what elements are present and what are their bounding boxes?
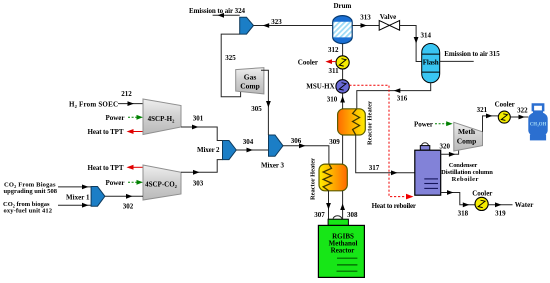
svg-text:Emission to air 324: Emission to air 324 — [189, 7, 246, 15]
cooler (water, bottom right) — [475, 197, 488, 210]
svg-text:Comp: Comp — [240, 81, 260, 90]
svg-text:305: 305 — [251, 105, 262, 113]
svg-text:306: 306 — [291, 137, 302, 145]
svg-text:oxy-fuel unit 412: oxy-fuel unit 412 — [4, 208, 53, 215]
wire: stream 304 from Mixer 2 to Mixer 3 — [236, 149, 268, 151]
wire: stream 325 from splitter to Gas Comp — [221, 34, 240, 97]
svg-text:Power: Power — [105, 114, 124, 122]
svg-text:Heat to TPT: Heat to TPT — [88, 164, 124, 172]
wire: stream 316 from Flash to top reactor heater — [357, 83, 431, 109]
heat exchanger MSU-HX — [336, 80, 349, 93]
wire: cooler to drum — [342, 44, 344, 56]
svg-text:310: 310 — [327, 96, 338, 104]
svg-text:Reactor Heater: Reactor Heater — [367, 101, 374, 145]
wire: power to 4SCP-CO2 (green dashed) — [128, 181, 143, 183]
wire: stream 323 from Drum to splitter — [254, 25, 333, 27]
wire: vertical between heaters (reactor effluent) — [342, 135, 344, 164]
mixer Mixer 3 — [261, 135, 285, 170]
svg-text:upgrading unit 508: upgrading unit 508 — [4, 188, 58, 195]
wire: MSU-HX heat to reboiler (red dashed) — [349, 85, 409, 196]
svg-text:322: 322 — [517, 107, 528, 115]
wire: column bottoms to cooler 318 — [441, 193, 475, 205]
wire: stream 306 from Mixer 3 to bottom reactor heater — [283, 146, 329, 164]
svg-text:Emission to air 315: Emission to air 315 — [444, 50, 500, 58]
svg-text:Heat to reboiler: Heat to reboiler — [372, 202, 416, 210]
wire: stream 321 from Meth Comp to cooler — [483, 116, 499, 132]
svg-text:318: 318 — [458, 210, 469, 218]
wire: emission to air 324 — [213, 14, 240, 16]
svg-text:Distillation column: Distillation column — [441, 169, 493, 176]
svg-text:316: 316 — [397, 95, 408, 103]
wire: stream 305 from Gas Comp to Mixer 3 — [261, 70, 268, 135]
cooler (product, top right) — [498, 111, 510, 123]
wire: biogas feed 1 into Mixer 1 — [58, 186, 91, 188]
svg-text:Water: Water — [515, 201, 534, 209]
vessel Flash — [422, 44, 440, 83]
wire: cooler heat out (red) — [329, 61, 336, 63]
valve — [379, 13, 399, 30]
svg-text:H2 From SOEC: H2 From SOEC — [69, 100, 118, 109]
wire: biogas feed 2 into Mixer 1 — [58, 204, 91, 206]
svg-text:Mixer 1: Mixer 1 — [66, 194, 90, 202]
svg-text:301: 301 — [193, 114, 204, 122]
wire: stream 307 from bottom heater down into reactor — [328, 191, 330, 219]
svg-text:Cooler: Cooler — [495, 101, 515, 109]
svg-text:320: 320 — [440, 142, 451, 150]
column distillation (Condenser / Distillation column / Reboiler) — [415, 143, 441, 195]
svg-text:212: 212 — [121, 90, 132, 98]
heat exchanger bottom Reactor Heater — [310, 158, 348, 200]
svg-text:307: 307 — [314, 211, 325, 219]
wire: heat to TPT from 4SCP-CO2 (red) — [130, 166, 143, 168]
svg-text:4SCP-CO2: 4SCP-CO2 — [145, 180, 178, 189]
vessel Drum — [333, 2, 353, 44]
svg-text:Heat to TPT: Heat to TPT — [88, 128, 124, 136]
svg-text:304: 304 — [243, 138, 254, 146]
svg-text:311: 311 — [329, 67, 340, 75]
wire: power to 4SCP-H2 (green dashed) — [128, 116, 143, 118]
wire: stream 313 from Drum to valve — [352, 25, 379, 27]
svg-text:Gas: Gas — [244, 73, 257, 82]
svg-text:Power: Power — [414, 120, 433, 128]
svg-text:Valve: Valve — [380, 13, 396, 21]
svg-text:Reactor: Reactor — [331, 247, 355, 255]
svg-text:302: 302 — [123, 203, 134, 211]
svg-text:323: 323 — [271, 18, 282, 26]
svg-text:Cooler: Cooler — [298, 58, 318, 66]
svg-text:Condenser: Condenser — [449, 162, 478, 169]
svg-text:Reboiler: Reboiler — [452, 176, 479, 183]
wire: emission to air 315 from Flash — [440, 60, 474, 62]
svg-text:4SCP-H2: 4SCP-H2 — [148, 115, 176, 124]
svg-text:321: 321 — [477, 106, 488, 114]
wire: stream 301 from 4SCP-H2 to Mixer 2 — [181, 127, 223, 141]
svg-text:Cooler: Cooler — [472, 189, 492, 197]
wire: power to Meth Comp (green dashed) — [435, 123, 448, 125]
svg-text:Flash: Flash — [423, 59, 439, 67]
svg-text:303: 303 — [193, 180, 204, 188]
svg-text:Reactor Heater: Reactor Heater — [310, 158, 317, 200]
mixer Mixer 1 — [66, 187, 105, 207]
svg-text:314: 314 — [420, 31, 431, 39]
svg-text:CH3OH: CH3OH — [530, 123, 547, 128]
compressor 4SCP-CO2 — [143, 165, 181, 200]
wire: H2 feed into 4SCP-H2 — [118, 103, 143, 105]
mixer Mixer 2 — [197, 141, 236, 160]
cooler (top, near drum) — [336, 56, 349, 69]
svg-text:MSU-HX: MSU-HX — [306, 83, 334, 91]
wire: stream 303 from 4SCP-CO2 to Mixer 2 — [181, 160, 223, 173]
wire: stream 317 from top heater to distillation column — [356, 135, 415, 173]
svg-text:Mixer 3: Mixer 3 — [261, 162, 285, 170]
svg-text:Power: Power — [105, 179, 124, 187]
wire: heat to TPT from 4SCP-H2 (red) — [130, 131, 143, 133]
wire: stream 302 from Mixer 1 to 4SCP-CO2 — [105, 195, 143, 197]
wire: stream 310 from top heater to MSU-HX — [342, 93, 344, 109]
svg-text:Comp: Comp — [457, 136, 477, 145]
svg-text:317: 317 — [369, 164, 380, 172]
wire: stream 322 from cooler to CH3OH bottle — [510, 116, 528, 118]
svg-text:309: 309 — [329, 138, 340, 146]
tank CH3OH bottle — [528, 103, 547, 140]
splitter (emission split) — [240, 17, 254, 34]
svg-text:325: 325 — [225, 54, 236, 62]
heat exchanger top Reactor Heater — [338, 101, 374, 145]
svg-text:313: 313 — [360, 14, 371, 22]
wire: MSU-HX to cooler — [342, 69, 344, 80]
svg-text:Drum: Drum — [333, 2, 351, 10]
svg-text:312: 312 — [328, 46, 339, 54]
reactor RGIBS Methanol Reactor — [318, 216, 364, 278]
compressor Meth Comp — [454, 122, 483, 151]
wire: stream 308 from reactor up to bottom heater — [342, 191, 344, 219]
svg-text:319: 319 — [495, 210, 506, 218]
svg-text:308: 308 — [347, 211, 358, 219]
compressor Gas Comp — [236, 68, 264, 94]
wire: stream 319 to water — [488, 204, 512, 206]
wire: stream 320 from column to Meth Comp — [441, 148, 459, 154]
svg-text:Meth: Meth — [458, 127, 476, 136]
wire: stream 314 from valve to Flash — [400, 26, 422, 62]
compressor 4SCP-H2 — [143, 99, 181, 135]
svg-text:Mixer 2: Mixer 2 — [197, 146, 220, 154]
